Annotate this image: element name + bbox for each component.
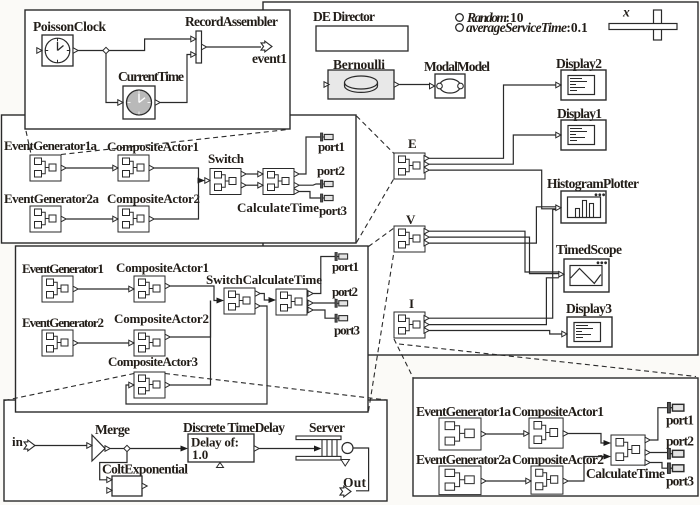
actor ColtExponential	[107, 476, 147, 496]
dashed explosion line I to window5 left	[394, 339, 413, 378]
wire CompositeActor1 to Switch	[154, 168, 202, 181]
svg-text:E: E	[408, 136, 417, 151]
svg-text:EventGenerator2: EventGenerator2	[22, 315, 104, 330]
svg-text:port1: port1	[666, 413, 694, 428]
svg-text:1.0: 1.0	[192, 447, 208, 462]
wire Bernoulli to ModalModel	[400, 84, 430, 86]
input port in icon	[24, 440, 35, 451]
junction arrow into Switch (window 3)	[217, 298, 225, 304]
actor CalculateTime (window 3)	[276, 289, 313, 315]
arrow into CalculateTime lower (window 5)	[604, 454, 612, 460]
actor EventGenerator1	[42, 276, 78, 302]
actor EventGenerator2a	[30, 206, 66, 232]
wire junction down to ColtExponential	[100, 452, 127, 480]
wire CalculateTime to port2 (window 2)	[299, 184, 320, 185]
dashed explosion line window2 to E top	[357, 116, 395, 154]
dashed explosion line window2 to E bottom	[357, 179, 395, 243]
svg-text:PoissonClock: PoissonClock	[33, 19, 106, 34]
wire Switch feedback to CompositeActor3	[126, 306, 267, 404]
composite actor I	[394, 312, 429, 338]
port1 icon (window 3)	[335, 253, 348, 261]
window 5: bottom-right sub-model frame	[413, 378, 698, 496]
wire junction to TimeDelay	[130, 448, 181, 450]
wire junction to RecordAssembler top input	[109, 39, 191, 51]
window 1: PoissonClock sub-model frame	[25, 10, 290, 129]
svg-text:V: V	[406, 212, 416, 227]
svg-text:port3: port3	[319, 203, 348, 218]
actor Switch (window 2)	[205, 169, 246, 195]
svg-text:Server: Server	[309, 420, 345, 435]
svg-text:EventGenerator2a: EventGenerator2a	[4, 191, 100, 206]
svg-text:CalculateTime: CalculateTime	[237, 200, 319, 215]
actor CalculateTime (window 2)	[258, 169, 299, 195]
actor CompositeActor1 (window 3)	[129, 276, 170, 302]
DE Director box	[316, 26, 408, 51]
junction node (window 4)	[124, 445, 130, 451]
svg-text:averageServiceTime:0.1: averageServiceTime:0.1	[466, 20, 588, 35]
wire CalculateTime to port1 (window 5)	[650, 408, 667, 440]
composite actor E	[394, 153, 429, 179]
wire EventGenerator1a to CompositeActor1	[66, 167, 113, 169]
wire I out3 to Display3	[429, 331, 562, 335]
sink HistogramPlotter	[556, 191, 606, 223]
port3 icon (window 3)	[335, 314, 348, 322]
actor Merge	[87, 435, 110, 461]
svg-text:DE Director: DE Director	[313, 9, 375, 24]
port1 icon (window 5)	[668, 403, 684, 413]
actor CompositeActor3	[129, 372, 170, 398]
svg-text:EventGenerator1a: EventGenerator1a	[416, 404, 511, 419]
svg-text:port2: port2	[666, 434, 694, 449]
sink TimedScope	[559, 259, 609, 292]
svg-text:HistogramPlotter: HistogramPlotter	[547, 176, 639, 191]
composite actor V	[394, 226, 429, 252]
actor EventGenerator1a (window 5)	[439, 418, 486, 450]
svg-text:in: in	[12, 434, 24, 449]
svg-text:Display1: Display1	[557, 106, 602, 121]
wire CompositeActor3 to Switch (window 3)	[170, 301, 210, 386]
port3 icon (window 5)	[668, 463, 684, 473]
arrow into Server	[314, 446, 322, 452]
actor Server	[296, 436, 353, 466]
port3 icon (window 2)	[321, 194, 334, 202]
svg-text:Merge: Merge	[95, 422, 130, 437]
actor CompositeActor2 (window 5)	[526, 466, 568, 494]
parameter averageServiceTime bullet	[456, 24, 464, 32]
arrow into CalculateTime upper (window 5)	[604, 440, 612, 446]
window 4: Merge/Server sub-model frame	[4, 400, 387, 501]
wire Switch to CalculateTime lower	[246, 184, 258, 186]
svg-text:Discrete TimeDelay: Discrete TimeDelay	[183, 420, 285, 435]
svg-text:CompositeActor1: CompositeActor1	[116, 260, 209, 275]
dashed explosion line window3 to V bottom	[369, 252, 395, 412]
wire CompositeActor2 to Switch	[154, 181, 198, 220]
wire TimeDelay to Server	[259, 448, 314, 450]
wire CompositeActor2 to Switch (window 3)	[170, 301, 210, 338]
svg-text:EventGenerator2a: EventGenerator2a	[416, 452, 511, 467]
svg-text:TimedScope: TimedScope	[556, 242, 622, 257]
svg-text:CompositeActor1: CompositeActor1	[107, 139, 199, 154]
actor Bernoulli	[324, 70, 399, 99]
dashed explosion line window3 to V top	[369, 228, 395, 247]
svg-text:ColtExponential: ColtExponential	[102, 462, 188, 477]
wire I out1 to HistogramPlotter	[429, 210, 556, 319]
wire Merge to junction	[110, 448, 124, 450]
actor RecordAssembler	[191, 31, 207, 63]
actor CompositeActor2 (window 2)	[113, 206, 154, 232]
wire E out1 to Display2	[429, 85, 556, 158]
actor CompositeActor1 (window 2)	[113, 155, 154, 181]
actor CompositeActor2 (window 3)	[129, 330, 170, 356]
arrow into TimeDelay	[181, 446, 189, 452]
wire V out1 to TimedScope	[429, 231, 559, 272]
actor EventGenerator1a	[30, 155, 66, 181]
wire EventGenerator2 to CompositeActor2 (window 3)	[78, 342, 129, 344]
wire CalculateTime to port2 (window 5)	[650, 452, 667, 454]
dashed explosion line window4 to CompositeActor3 left	[5, 374, 135, 401]
svg-text:CompositeActor1: CompositeActor1	[512, 404, 604, 419]
wire Switch to CalculateTime upper	[246, 173, 258, 175]
actor CompositeActor1 (window 5)	[524, 418, 568, 448]
wire EventGenerator1 to CompositeActor1 (window 3)	[78, 288, 129, 290]
svg-text:port2: port2	[332, 284, 358, 299]
svg-text:CompositeActor2: CompositeActor2	[512, 452, 604, 467]
wire V out3 to HistogramPlotter	[429, 207, 556, 243]
actor CurrentTime	[118, 86, 160, 119]
dashed explosion line window1 right	[61, 130, 288, 155]
svg-text:CompositeActor3: CompositeActor3	[108, 354, 199, 369]
svg-text:port2: port2	[317, 163, 345, 178]
port1 icon (window 2)	[321, 133, 334, 141]
output port Out icon	[340, 486, 351, 497]
arrow into CalculateTime (window 3)	[269, 297, 277, 303]
port2 icon (window 3)	[335, 299, 348, 307]
actor ModalModel	[430, 74, 466, 98]
actor TimeDelay	[188, 434, 259, 468]
wire CalculateTime to port1 (window 3)	[313, 257, 335, 294]
svg-text:port1: port1	[332, 259, 359, 274]
window 3: EventGenerator1 sub-model frame	[16, 246, 369, 412]
svg-text:CalculateTime: CalculateTime	[586, 466, 665, 481]
svg-text:CurrentTime: CurrentTime	[118, 69, 184, 84]
wire E out2 to Display1	[429, 135, 556, 164]
wire CompositeActor1 to Switch (window 3)	[170, 286, 217, 301]
wire CalculateTime to port2 (window 3)	[313, 302, 335, 304]
wire junction to CurrentTime	[106, 54, 118, 103]
svg-text:RecordAssembler: RecordAssembler	[185, 14, 278, 29]
svg-text:ModalModel: ModalModel	[424, 59, 490, 74]
actor CalculateTime (window 5)	[611, 435, 650, 465]
wire CalculateTime to port3 (window 3)	[313, 310, 335, 318]
actor EventGenerator2a (window 5)	[439, 466, 486, 495]
wire CalculateTime to port3 (window 5)	[650, 463, 667, 469]
top-level model canvas frame	[263, 2, 698, 355]
dashed explosion line window4 to CompositeActor3 right	[165, 374, 387, 401]
svg-text:CompositeActor2: CompositeActor2	[107, 191, 200, 206]
wire CurrentTime to RecordAssembler bottom input	[160, 55, 191, 103]
sink Display3	[562, 317, 612, 347]
svg-text:x: x	[622, 5, 630, 20]
wire V out2 to TimedScope	[429, 237, 559, 274]
svg-text:I: I	[409, 296, 414, 311]
dashed explosion line I to window5 right	[399, 344, 696, 377]
svg-text:CompositeActor2: CompositeActor2	[114, 311, 209, 326]
dashed explosion line window1 left	[26, 131, 31, 154]
wire EventGenerator1a to CompositeActor1 (window 5)	[486, 433, 524, 435]
wire RecordAssembler to event1	[207, 46, 261, 48]
sink Display1	[556, 120, 606, 150]
svg-text:Display3: Display3	[566, 301, 612, 316]
svg-text:event1: event1	[252, 51, 287, 66]
wire CompositeActor2 to CalculateTime (window 5)	[568, 457, 604, 482]
output port event1 icon	[261, 41, 272, 52]
window 2: EventGenerator1a sub-model frame	[2, 115, 357, 243]
svg-text:port3: port3	[334, 323, 361, 338]
wire EventGenerator2a to CompositeActor2	[66, 218, 113, 220]
sink Display2	[556, 70, 606, 100]
svg-text:SwitchCalculateTime: SwitchCalculateTime	[206, 272, 322, 287]
junction arrow into Switch	[198, 178, 206, 184]
wire EventGenerator2a to CompositeActor2 (window 5)	[486, 480, 526, 482]
port2 icon (window 5)	[668, 449, 684, 459]
junction node	[103, 47, 109, 53]
svg-text:Display2: Display2	[556, 56, 602, 71]
wire CompositeActor1 to CalculateTime (window 5)	[568, 434, 604, 444]
parameter Random bullet	[456, 14, 464, 22]
svg-text:EventGenerator1: EventGenerator1	[22, 261, 104, 276]
actor EventGenerator2	[42, 330, 78, 356]
svg-text:port3: port3	[666, 474, 694, 489]
svg-text:Switch: Switch	[208, 151, 245, 166]
wire CalculateTime to port1 (window 2)	[299, 137, 320, 174]
svg-text:EventGenerator1a: EventGenerator1a	[4, 138, 98, 153]
actor Switch (window 3)	[224, 288, 260, 314]
wire PoissonClock to junction	[78, 50, 104, 52]
port2 icon (window 2)	[321, 180, 334, 188]
wire Server to Out	[353, 448, 369, 491]
wire Switch to CalculateTime (window 3)	[260, 294, 269, 301]
wire CalculateTime to port3 (window 2)	[299, 192, 320, 199]
wire in to Merge	[35, 445, 87, 447]
wire E out3 to HistogramPlotter	[429, 170, 556, 209]
actor PoissonClock	[37, 35, 78, 66]
parameter x cross icon	[609, 10, 677, 40]
wire I out2 to TimedScope	[429, 278, 559, 325]
